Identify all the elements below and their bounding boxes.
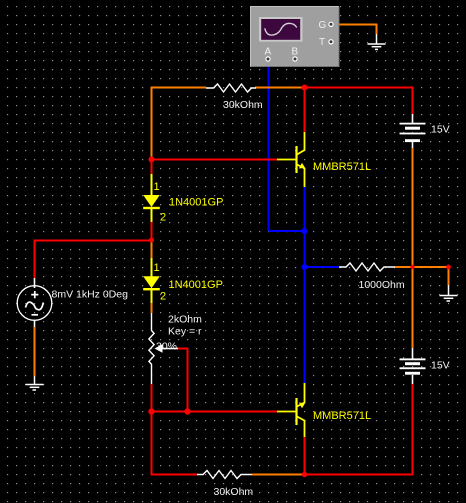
- svg-text:T: T: [319, 37, 325, 48]
- wire orange left L up: [151, 88, 207, 159]
- svg-text:1: 1: [154, 262, 160, 274]
- transistor Q1 MMBR571L: [277, 132, 305, 187]
- wire red AC source horizontal: [34, 240, 152, 278]
- oscilloscope terminal A: [266, 57, 270, 61]
- resistor R1 30kOhm top: [206, 84, 256, 92]
- svg-text:2: 2: [160, 291, 166, 303]
- svg-text:MMBR571L: MMBR571L: [313, 161, 371, 173]
- diode D1 1N4001GP: [143, 174, 160, 222]
- wire orange R2 right to right ground corner: [395, 266, 448, 268]
- oscilloscope screen: [259, 17, 303, 42]
- svg-text:30%: 30%: [156, 341, 177, 353]
- junction node D1 top: [149, 157, 155, 163]
- junction node supply midpoint: [410, 265, 414, 269]
- potentiometer wiper lead: [160, 348, 178, 350]
- AC source V3 8mV: [17, 278, 52, 327]
- resistor R2 1000Ohm: [339, 263, 395, 271]
- svg-text:1N4001GP: 1N4001GP: [169, 279, 223, 291]
- wire red bottom right bus to battery V2: [304, 384, 414, 475]
- wire blue center vertical Q1 emitter to Q2 collector: [304, 187, 306, 383]
- svg-text:30kOhm: 30kOhm: [223, 99, 263, 111]
- wire red pot wiper stub: [176, 348, 188, 411]
- wire orange scope G to ground: [333, 24, 377, 35]
- wire red bottom left bus: [151, 474, 198, 476]
- oscilloscope terminal B: [293, 57, 297, 61]
- wire red junction to diode D1: [151, 159, 153, 174]
- svg-text:B: B: [292, 47, 299, 58]
- svg-text:A: A: [265, 47, 272, 58]
- svg-text:15V: 15V: [431, 360, 450, 372]
- wire orange bottom right of R3: [252, 474, 304, 476]
- svg-text:G: G: [319, 20, 327, 31]
- oscilloscope sine trace: [265, 23, 297, 35]
- junction node pot bottom: [148, 408, 154, 414]
- junction node right ground: [446, 265, 451, 270]
- wire orange top right of R1: [255, 87, 304, 89]
- junction node output: [302, 264, 308, 270]
- svg-text:2: 2: [160, 212, 166, 224]
- junction node bottom bus: [302, 472, 307, 477]
- oscilloscope terminal T: [329, 40, 333, 44]
- oscilloscope terminal G: [329, 22, 333, 26]
- svg-text:MMBR571L: MMBR571L: [313, 410, 371, 422]
- wire red D1 cathode to AC node: [151, 222, 153, 240]
- svg-text:2kOhm: 2kOhm: [168, 314, 202, 326]
- oscilloscope XSC1 body: [250, 6, 339, 67]
- wire scope A blue vertical: [268, 61, 270, 231]
- junction node AC to diode chain: [149, 238, 154, 243]
- wire orange diode2 cathode to pot: [151, 302, 153, 313]
- potentiometer R4 2kOhm body: [149, 313, 154, 384]
- battery V1 15V: [400, 114, 426, 148]
- wire red Q1 collector drop: [304, 87, 306, 132]
- ground for AC source: [26, 376, 44, 390]
- svg-text:30kOhm: 30kOhm: [214, 486, 254, 498]
- diode D2 1N4001GP: [143, 258, 160, 303]
- svg-text:1N4001GP: 1N4001GP: [169, 197, 223, 209]
- junction node wiper loop: [184, 408, 190, 414]
- wire orange battery V1 minus to battery V2 plus: [412, 148, 414, 348]
- junction node top bus: [302, 85, 308, 91]
- svg-text:1: 1: [154, 181, 160, 193]
- svg-text:8mV 1kHz 0Deg: 8mV 1kHz 0Deg: [52, 289, 129, 301]
- svg-text:15V: 15V: [431, 124, 450, 136]
- wire red Q1 base: [151, 159, 277, 161]
- wire orange AC source to ground: [34, 327, 36, 376]
- wire red Q2 base: [151, 411, 277, 413]
- ground for scope: [368, 34, 386, 49]
- wire orange diode2 anode segment: [151, 239, 153, 258]
- resistor R3 30kOhm bottom: [197, 471, 252, 479]
- wire red pot bottom to bottom bus: [151, 384, 153, 474]
- junction node scope tap: [302, 228, 308, 234]
- transistor Q2 MMBR571L: [277, 383, 305, 437]
- wire red Q2 emitter drop: [304, 437, 306, 474]
- wire red top bus to battery V1: [304, 87, 414, 114]
- wire scope A blue horizontal to node: [269, 230, 305, 232]
- wire blue node to R2 left: [305, 266, 340, 268]
- svg-text:Key = r: Key = r: [168, 326, 202, 338]
- battery V2 15V: [400, 348, 426, 384]
- potentiometer wiper arrow: [155, 344, 163, 352]
- wire orange right ground drop: [448, 267, 450, 286]
- ground right of R2: [440, 285, 458, 301]
- svg-text:1000Ohm: 1000Ohm: [359, 279, 405, 291]
